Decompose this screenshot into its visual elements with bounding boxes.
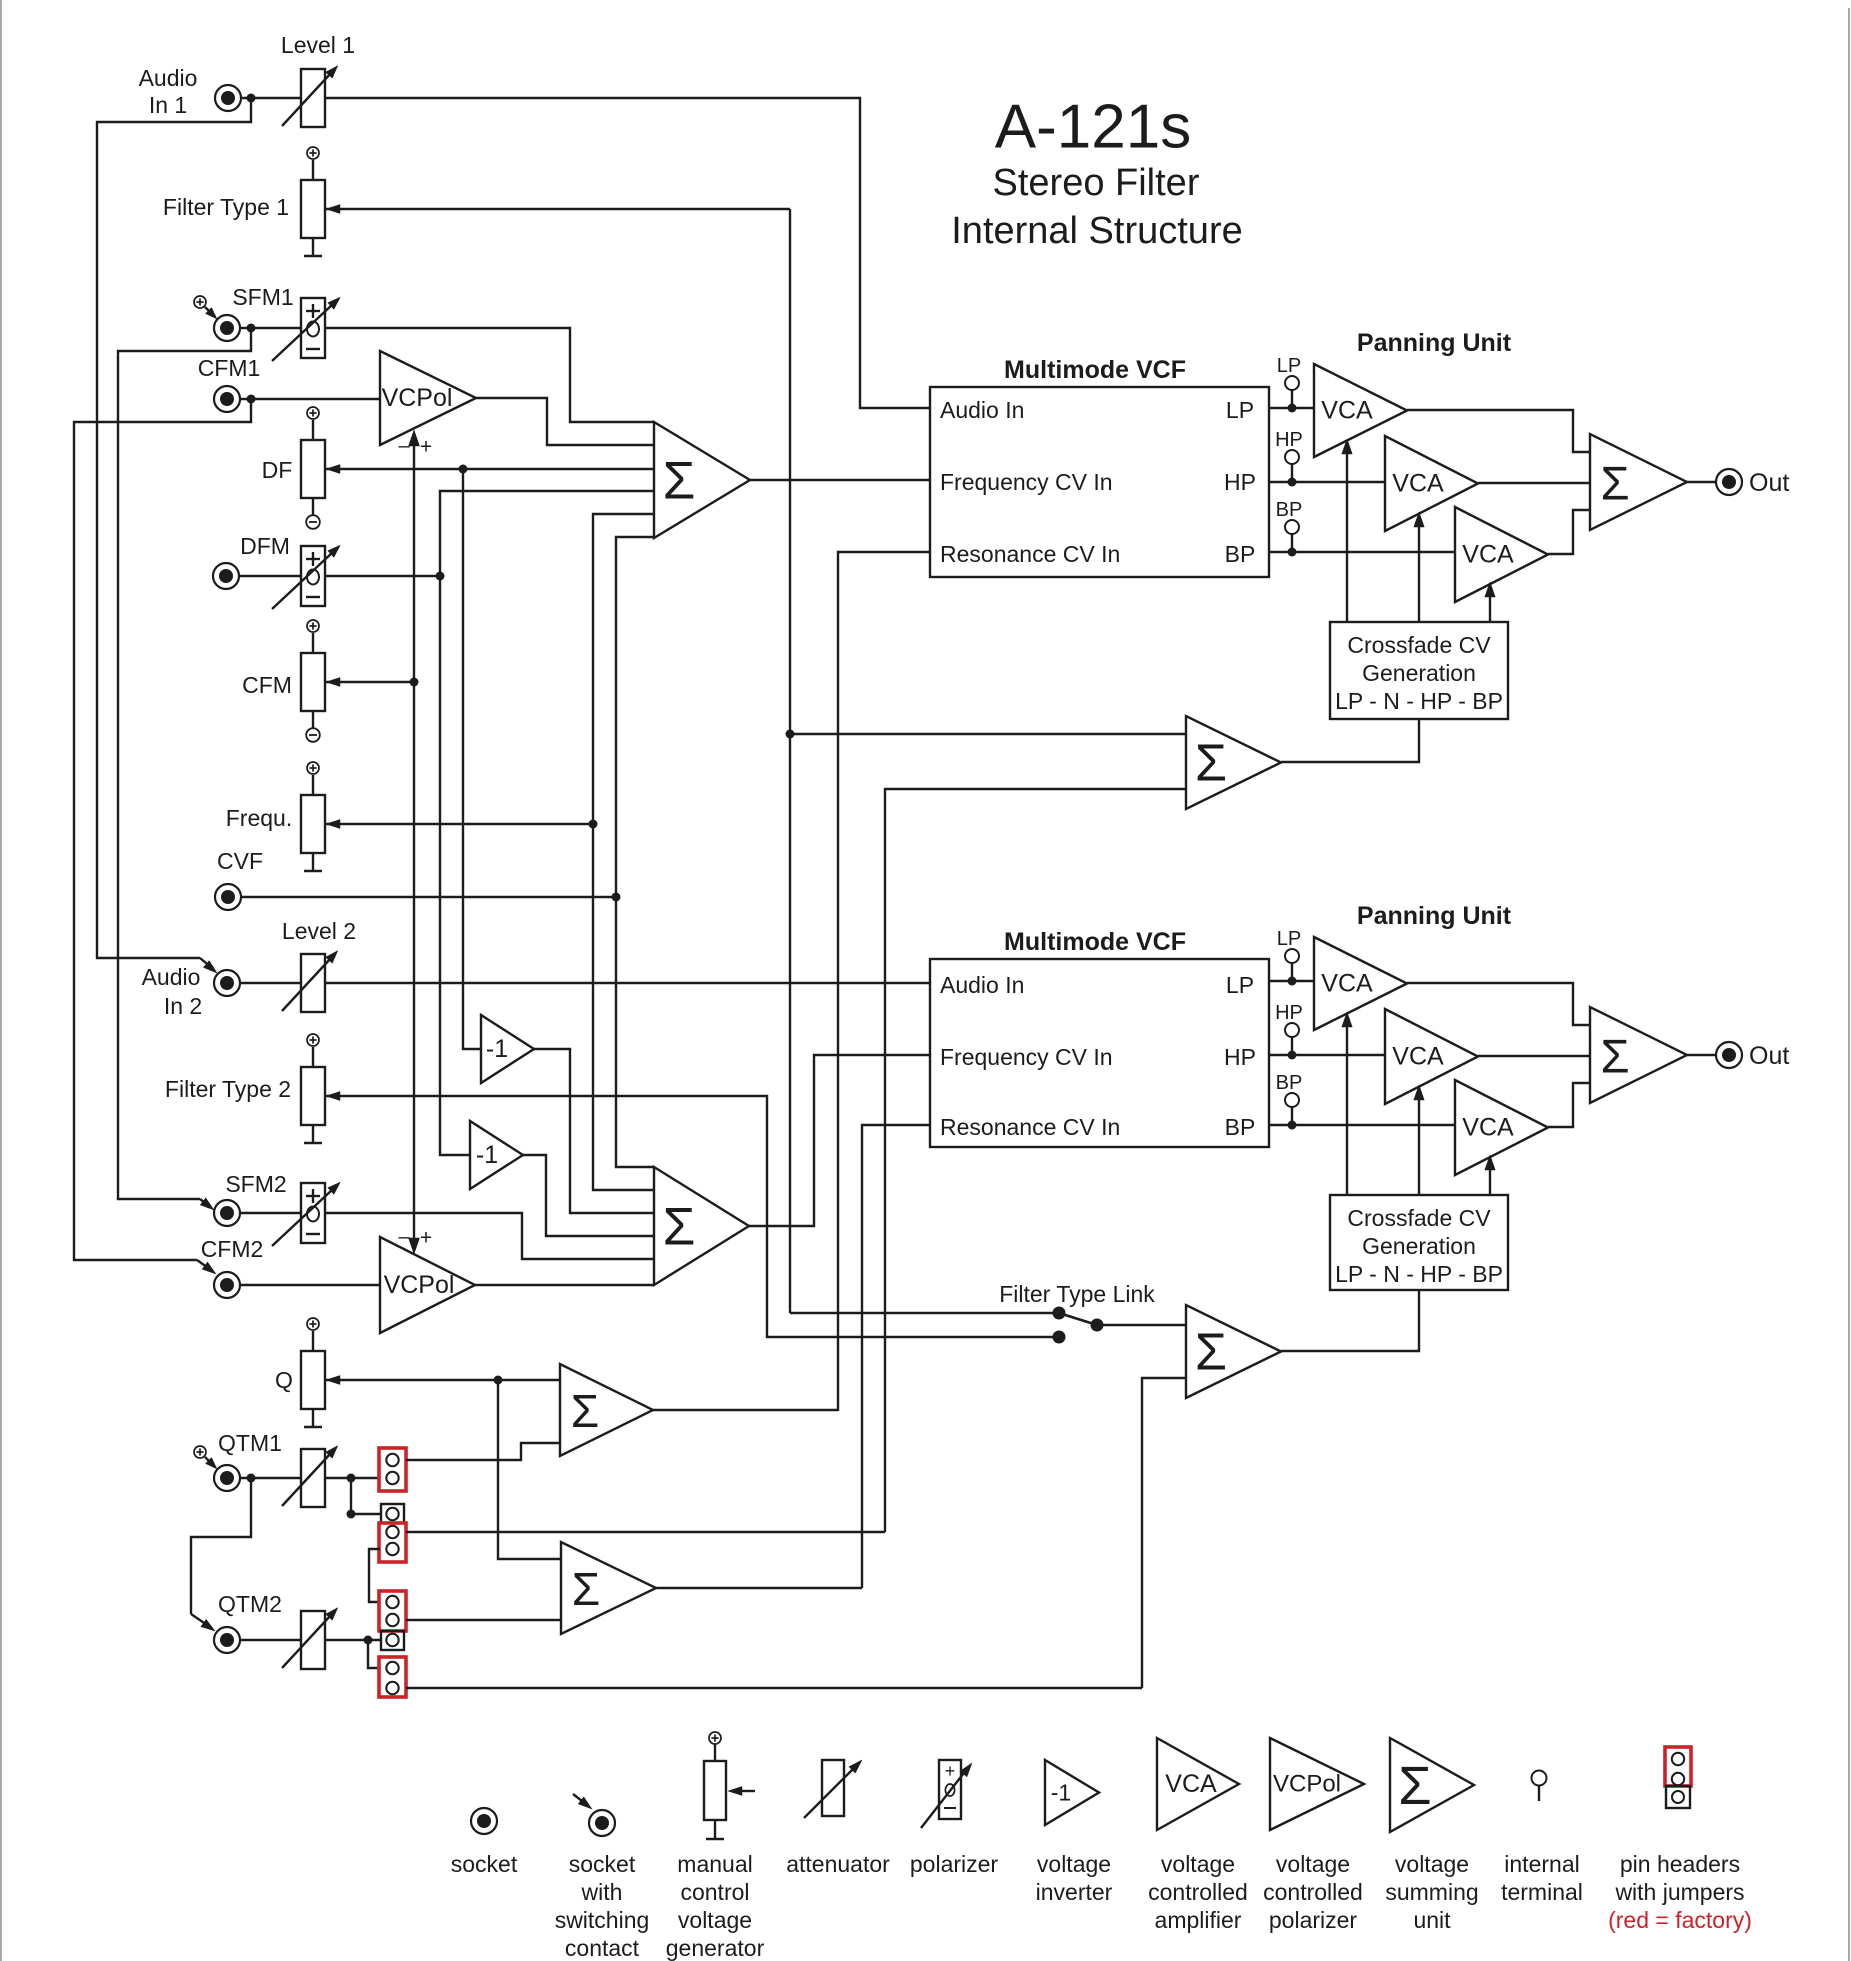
svg-text:Out: Out <box>1749 469 1789 497</box>
socket QTM2 <box>214 1591 282 1653</box>
node QTM1 out junction <box>347 1474 356 1483</box>
svg-text:Audio In: Audio In <box>940 397 1024 423</box>
polarizer SFM1 <box>272 297 340 361</box>
label VCF U2 Audio In <box>940 972 1254 998</box>
socket Out 1 <box>1716 469 1789 497</box>
svg-text:manual: manual <box>677 1851 752 1877</box>
label VCF U2 Frequency CV In <box>940 1044 1256 1070</box>
svg-text:terminal: terminal <box>1501 1879 1583 1905</box>
node Q junction <box>494 1376 503 1385</box>
svg-text:(red = factory): (red = factory) <box>1608 1907 1752 1933</box>
svg-text:HP: HP <box>1224 469 1256 495</box>
svg-text:inverter: inverter <box>1036 1879 1113 1905</box>
summing unit link sum 2 <box>1186 1305 1281 1398</box>
node QTM2 junction <box>364 1636 373 1645</box>
svg-text:pin headers: pin headers <box>1620 1851 1740 1877</box>
wire VCPol U1 control <box>409 430 420 682</box>
svg-text:socket: socket <box>451 1851 518 1877</box>
plus normal QTM1 <box>194 1446 217 1469</box>
node link switch contact B <box>1053 1331 1066 1344</box>
wire VCF1 HP out <box>1269 481 1385 483</box>
wire Filter Type 1 wiper <box>325 205 790 214</box>
svg-text:HP: HP <box>1275 429 1303 451</box>
socket SFM1 <box>214 284 294 341</box>
wire QTM1 attenuator out <box>325 1477 379 1479</box>
svg-text:QTM2: QTM2 <box>218 1591 282 1617</box>
svg-text:Stereo Filter: Stereo Filter <box>993 162 1200 204</box>
svg-text:voltage: voltage <box>1395 1851 1469 1877</box>
page border right <box>1848 8 1850 1961</box>
wire Q to Q sum B <box>498 1380 561 1559</box>
subtitle Internal Structure <box>951 210 1242 252</box>
attenuator QTM2 <box>282 1608 338 1669</box>
svg-text:-1: -1 <box>1051 1780 1071 1806</box>
svg-text:Σ: Σ <box>663 1198 696 1257</box>
wire Frequ wiper <box>325 820 593 829</box>
svg-text:Multimode VCF: Multimode VCF <box>1004 356 1186 384</box>
svg-text:Generation: Generation <box>1362 660 1476 686</box>
wire inverter B out to sum 2 <box>523 1155 654 1236</box>
label Panning Unit 1 <box>1357 329 1512 357</box>
wire output 1 <box>1687 481 1716 483</box>
svg-text:Frequency CV In: Frequency CV In <box>940 1044 1113 1070</box>
svg-text:internal: internal <box>1504 1851 1579 1877</box>
manual control CFM <box>242 620 325 742</box>
svg-text:Frequ.: Frequ. <box>226 805 292 831</box>
label VCF U1 Resonance CV In <box>940 541 1255 567</box>
label VCF U1 Frequency CV In <box>940 469 1256 495</box>
wire H4 pin2 to link sum 2 <box>406 1687 1142 1689</box>
wire VCF2 HP out <box>1269 1054 1385 1056</box>
subtitle Stereo Filter <box>993 162 1200 204</box>
svg-text:-1: -1 <box>476 1141 498 1169</box>
multimode VCF U1 box <box>930 356 1269 577</box>
svg-text:VCA: VCA <box>1165 1770 1217 1798</box>
svg-text:LP: LP <box>1226 972 1254 998</box>
pin header H2 pin1 <box>386 1508 398 1520</box>
svg-text:controlled: controlled <box>1148 1879 1248 1905</box>
summing unit Q sum B <box>561 1542 656 1634</box>
title A-121s <box>995 93 1191 162</box>
node DF junction <box>459 465 468 474</box>
legend internal terminal <box>1501 1771 1583 1906</box>
summing unit sum 2 <box>654 1167 749 1285</box>
wire SFM1 to polarizer <box>240 327 301 329</box>
label Filter Type Link <box>999 1281 1155 1307</box>
wire VCPol U1 out to sum 1 <box>476 398 654 445</box>
svg-text:voltage: voltage <box>1161 1851 1235 1877</box>
node QTM1 junction <box>247 1474 256 1483</box>
node CVF junction <box>612 893 621 902</box>
VCA HP 1 <box>1385 436 1478 531</box>
svg-text:-1: -1 <box>486 1035 508 1063</box>
voltage inverter B <box>470 1121 523 1189</box>
VCA BP 2 <box>1455 1080 1548 1175</box>
crossfade CV generation box 2 <box>1330 1195 1508 1290</box>
wire CFM wiper <box>325 678 414 687</box>
svg-text:VCA: VCA <box>1321 397 1373 425</box>
polarizer SFM2 <box>272 1182 340 1246</box>
svg-text:HP: HP <box>1224 1044 1256 1070</box>
svg-text:Σ: Σ <box>663 452 696 511</box>
legend manual control voltage generator <box>666 1732 765 1961</box>
svg-text:Σ: Σ <box>1195 1324 1227 1382</box>
wire link sum 1 to crossfade 1 <box>1281 719 1419 762</box>
svg-text:Generation: Generation <box>1362 1233 1476 1259</box>
svg-text:Internal Structure: Internal Structure <box>951 210 1242 252</box>
svg-text:DFM: DFM <box>240 533 290 559</box>
wire VCF1 LP out <box>1269 407 1314 409</box>
wire Audio In 1 normal to Audio In 2 <box>97 98 251 973</box>
wire crossfade 1 to VCA HP <box>1414 512 1425 622</box>
wire SFM1 normal to SFM2 <box>118 328 251 1210</box>
node CFM1 junction <box>247 395 256 404</box>
svg-text:generator: generator <box>666 1935 765 1961</box>
wire H2 pin2 to link sum 1 <box>406 1531 885 1533</box>
svg-text:polarizer: polarizer <box>910 1851 999 1877</box>
label VCF U2 Resonance CV In <box>940 1114 1255 1140</box>
svg-text:VCPol: VCPol <box>1273 1771 1341 1798</box>
svg-text:attenuator: attenuator <box>786 1851 890 1877</box>
svg-text:Audio In: Audio In <box>940 972 1024 998</box>
wire SFM1 polarizer to sum 1 <box>325 328 654 422</box>
manual control Q <box>275 1318 325 1427</box>
pin header H1 with jumper <box>379 1448 406 1491</box>
wire crossfade 2 to VCA LP <box>1342 1012 1353 1195</box>
wire link switch to link sum 2 <box>1097 1324 1186 1326</box>
svg-text:Audio: Audio <box>139 65 198 91</box>
node LP terminal 2 <box>1277 928 1301 986</box>
legend voltage inverter <box>1036 1760 1113 1905</box>
svg-text:QTM1: QTM1 <box>218 1430 282 1456</box>
svg-text:LP: LP <box>1277 928 1301 950</box>
wire link switch lever <box>1059 1313 1097 1325</box>
svg-text:Σ: Σ <box>571 1385 599 1437</box>
wire VCA HP 1 to out sum <box>1478 482 1590 484</box>
wire Filter Type 1 down <box>789 209 791 1313</box>
wire DF wiper to sum 1 <box>325 465 654 474</box>
pin header H3 outline <box>381 1631 404 1650</box>
svg-text:unit: unit <box>1413 1907 1451 1933</box>
wire crossfade 1 to VCA LP <box>1342 439 1353 622</box>
manual control Filter Type 1 <box>163 147 325 256</box>
wire VCF1 Resonance CV In <box>838 552 930 1411</box>
pin header H2 with jumper <box>379 1523 406 1562</box>
wire H3 pin2 to Q sum B <box>406 1619 561 1621</box>
wire Audio In 2 to Level 2 <box>240 982 301 984</box>
wire VCF2 Resonance CV In <box>862 1125 930 1588</box>
socket CFM2 <box>201 1236 264 1298</box>
wire output 2 <box>1687 1054 1716 1056</box>
wire VCF2 LP out <box>1269 980 1314 982</box>
wire inverter A out to sum 2 <box>534 1049 654 1213</box>
wire QTM1 normal to QTM2 <box>191 1478 251 1631</box>
pin header H3 pin3 <box>386 1634 398 1646</box>
svg-text:+: + <box>420 1227 432 1250</box>
svg-text:CVF: CVF <box>217 848 263 874</box>
svg-text:BP: BP <box>1225 1114 1256 1140</box>
wire Audio In 1 to Level 1 <box>241 97 301 99</box>
svg-text:BP: BP <box>1225 541 1256 567</box>
svg-text:Resonance CV In: Resonance CV In <box>940 1114 1120 1140</box>
socket SFM2 <box>214 1171 287 1226</box>
wire crossfade 2 to VCA BP <box>1485 1155 1496 1195</box>
svg-text:A-121s: A-121s <box>995 93 1191 162</box>
wire crossfade 2 to VCA HP <box>1414 1085 1425 1195</box>
node Frequ junction <box>589 820 598 829</box>
wire CVF to sum 2 <box>616 897 654 1167</box>
svg-text:controlled: controlled <box>1263 1879 1363 1905</box>
wire Q sum B to VCF2 resonance <box>656 1587 862 1589</box>
legend socket with switching contact <box>555 1794 650 1961</box>
node Audio In 1 junction <box>247 94 256 103</box>
summing unit sum 1 <box>654 422 750 538</box>
socket Audio In 2 <box>142 964 240 1019</box>
wire Audio In 2 to VCF2 Audio In <box>325 982 930 984</box>
svg-text:–: – <box>398 1226 410 1248</box>
svg-text:VCA: VCA <box>1321 970 1373 998</box>
svg-text:switching: switching <box>555 1907 650 1933</box>
svg-text:Filter Type Link: Filter Type Link <box>999 1281 1155 1307</box>
op-amp VCPol U2 <box>380 1237 475 1333</box>
node link switch common <box>1091 1319 1104 1332</box>
attenuator Level 2 <box>282 918 356 1012</box>
svg-text:Σ: Σ <box>1398 1756 1431 1816</box>
svg-text:Σ: Σ <box>1600 457 1629 510</box>
legend summing unit <box>1385 1738 1478 1933</box>
wire CVF <box>241 896 616 898</box>
wire VCPol U2 out to sum 2 <box>475 1284 654 1286</box>
svg-text:Audio: Audio <box>142 964 201 990</box>
VCA LP 1 <box>1314 364 1407 457</box>
wire DFM to polarizer <box>239 575 301 577</box>
legend polarizer <box>910 1760 999 1877</box>
wire SFM2 to polarizer <box>240 1212 301 1214</box>
plus normal SFM1 <box>194 296 217 319</box>
svg-text:LP: LP <box>1277 355 1301 377</box>
wire VCA BP 2 to out sum <box>1548 1083 1590 1127</box>
wire CFM1 normal to CFM2 <box>74 399 251 1274</box>
label VCPol U1 polarity <box>398 435 432 459</box>
svg-text:Out: Out <box>1749 1042 1789 1070</box>
svg-text:Level 2: Level 2 <box>282 918 356 944</box>
wire VCA LP 2 to out sum <box>1407 983 1590 1025</box>
pin header H4 with jumper <box>379 1657 406 1697</box>
node CFM junction <box>410 678 419 687</box>
wire QTM2 attenuator out to H3 pin3 <box>325 1639 380 1641</box>
svg-text:Σ: Σ <box>1600 1030 1629 1083</box>
wire CVF to sum 1 <box>616 537 654 897</box>
wire CFM2 to VCPol U2 <box>240 1284 380 1286</box>
svg-text:In 2: In 2 <box>164 993 202 1019</box>
svg-text:+: + <box>420 436 432 459</box>
node HP terminal 1 <box>1275 429 1303 487</box>
svg-text:DF: DF <box>262 457 293 483</box>
wire VCF1 BP out <box>1269 551 1455 553</box>
wire header H2 to link sum 1 <box>885 789 1186 1532</box>
legend pin header <box>1608 1747 1752 1933</box>
svg-text:Panning Unit: Panning Unit <box>1357 902 1512 930</box>
page border left <box>0 0 2 1961</box>
manual control Filter Type 2 <box>165 1034 325 1143</box>
wire sum 2 to VCF2 Frequency CV In <box>749 1055 930 1226</box>
svg-text:VCPol: VCPol <box>382 384 453 412</box>
wire VCF2 BP out <box>1269 1124 1455 1126</box>
wire QTM2 to attenuator <box>240 1639 301 1641</box>
svg-text:voltage: voltage <box>1276 1851 1350 1877</box>
voltage inverter A <box>481 1015 534 1083</box>
svg-text:CFM2: CFM2 <box>201 1236 264 1262</box>
node LP terminal 1 <box>1277 355 1301 413</box>
wire Q sum A to VCF1 resonance <box>653 1409 838 1411</box>
legend VCA <box>1148 1738 1248 1933</box>
svg-text:voltage: voltage <box>678 1907 752 1933</box>
socket CVF <box>215 848 263 910</box>
svg-text:HP: HP <box>1275 1002 1303 1024</box>
svg-text:+: + <box>945 1761 956 1781</box>
node link switch contact A <box>1053 1307 1066 1320</box>
attenuator QTM1 <box>282 1446 338 1507</box>
wire QTM1 to attenuator <box>240 1477 301 1479</box>
wire VCA LP 1 to out sum <box>1407 410 1590 452</box>
node BP terminal 2 <box>1276 1072 1303 1130</box>
pin header H2 outline <box>381 1504 404 1523</box>
svg-text:BP: BP <box>1276 499 1303 521</box>
node SFM1 junction <box>247 324 256 333</box>
VCA BP 1 <box>1455 507 1548 602</box>
svg-text:with: with <box>581 1879 623 1905</box>
svg-text:Panning Unit: Panning Unit <box>1357 329 1512 357</box>
svg-text:Crossfade CV: Crossfade CV <box>1347 632 1491 658</box>
summing unit output 2 <box>1590 1007 1687 1103</box>
socket CFM1 <box>198 355 261 412</box>
wire Q wiper to Q sum A <box>325 1376 560 1385</box>
svg-text:CFM1: CFM1 <box>198 355 261 381</box>
svg-text:Frequency CV In: Frequency CV In <box>940 469 1113 495</box>
attenuator Level 1 <box>281 32 355 127</box>
legend attenuator <box>786 1760 890 1877</box>
wire Audio In 1 to VCF1 Audio In <box>325 98 930 408</box>
summing unit link sum 1 <box>1186 716 1281 809</box>
socket DFM <box>213 533 290 589</box>
svg-text:VCA: VCA <box>1462 1114 1514 1142</box>
svg-text:control: control <box>680 1879 749 1905</box>
wire VCA HP 2 to out sum <box>1478 1055 1590 1057</box>
svg-text:SFM2: SFM2 <box>225 1171 286 1197</box>
wire VCA BP 1 to out sum <box>1548 510 1590 554</box>
svg-text:CFM: CFM <box>242 672 292 698</box>
svg-text:Σ: Σ <box>1195 735 1227 793</box>
legend VCPol <box>1263 1738 1364 1933</box>
svg-text:VCA: VCA <box>1392 470 1444 498</box>
wire DFM to sum 1 <box>440 491 654 576</box>
wire Filter Type 2 wiper to link switch <box>325 1092 1053 1338</box>
manual control DF <box>262 407 325 529</box>
wire QTM2 to header H4 <box>368 1640 380 1668</box>
svg-text:Filter Type 2: Filter Type 2 <box>165 1076 291 1102</box>
node BP terminal 1 <box>1276 499 1303 557</box>
svg-text:VCA: VCA <box>1462 541 1514 569</box>
wire link switch top contact <box>790 1312 1053 1314</box>
wire Filter Type 1 to link sum 1 <box>790 733 1186 735</box>
svg-text:socket: socket <box>569 1851 636 1877</box>
svg-text:LP - N - HP - BP: LP - N - HP - BP <box>1335 688 1503 714</box>
svg-text:voltage: voltage <box>1037 1851 1111 1877</box>
svg-text:summing: summing <box>1385 1879 1478 1905</box>
wire DFM polarizer out <box>325 575 440 577</box>
polarizer DFM <box>272 545 340 609</box>
wire H2 pin3 to H3 pin1 <box>369 1549 380 1602</box>
svg-text:LP - N - HP - BP: LP - N - HP - BP <box>1335 1261 1503 1287</box>
crossfade CV generation box 1 <box>1330 622 1508 719</box>
manual control Frequ <box>226 762 325 871</box>
svg-text:VCPol: VCPol <box>384 1271 455 1299</box>
svg-text:Filter Type 1: Filter Type 1 <box>163 194 289 220</box>
label VCF U1 Audio In <box>940 397 1254 423</box>
svg-text:BP: BP <box>1276 1072 1303 1094</box>
label VCPol U2 polarity <box>398 1226 432 1250</box>
op-amp VCPol U1 <box>380 351 476 445</box>
wire Frequ to sum 2 <box>593 824 654 1190</box>
wire crossfade 1 to VCA BP <box>1485 582 1496 622</box>
node H2 junction <box>347 1510 356 1519</box>
svg-text:VCA: VCA <box>1392 1043 1444 1071</box>
pin header H3 with jumper <box>379 1591 406 1631</box>
wire sum 1 to VCF1 Frequency CV In <box>750 479 930 481</box>
node HP terminal 2 <box>1275 1002 1303 1060</box>
multimode VCF U2 box <box>930 928 1269 1147</box>
wire CFM1 to VCPol U1 <box>240 398 380 400</box>
svg-text:amplifier: amplifier <box>1155 1907 1242 1933</box>
VCA HP 2 <box>1385 1009 1478 1104</box>
svg-text:Level 1: Level 1 <box>281 32 355 58</box>
svg-text:Multimode VCF: Multimode VCF <box>1004 928 1186 956</box>
svg-text:polarizer: polarizer <box>1269 1907 1358 1933</box>
socket Audio In 1 <box>139 65 241 118</box>
node Filter Type 1 branch junction <box>786 730 795 739</box>
summing unit Q sum A <box>560 1364 653 1456</box>
svg-text:In 1: In 1 <box>149 92 187 118</box>
wire header H4 to link sum 2 <box>1142 1378 1186 1688</box>
node DFM junction <box>436 572 445 581</box>
legend socket <box>451 1808 518 1877</box>
svg-text:Resonance CV In: Resonance CV In <box>940 541 1120 567</box>
label Panning Unit 2 <box>1357 902 1512 930</box>
svg-text:Crossfade CV: Crossfade CV <box>1347 1205 1491 1231</box>
wire DF to inverter A <box>463 469 481 1049</box>
wire H1 pin1 to Q sum A <box>406 1443 560 1460</box>
svg-text:SFM1: SFM1 <box>232 284 293 310</box>
wire VCPol U2 control <box>409 682 420 1254</box>
wire Frequ to sum 1 <box>593 514 654 824</box>
svg-text:Q: Q <box>275 1367 293 1393</box>
socket Out 2 <box>1716 1042 1789 1070</box>
VCA LP 2 <box>1314 937 1407 1030</box>
wire SFM2 polarizer to sum 2 <box>325 1213 654 1259</box>
wire link sum 2 to crossfade 2 <box>1281 1290 1419 1351</box>
wire DFM to inverter B <box>440 576 470 1155</box>
svg-text:contact: contact <box>565 1935 640 1961</box>
socket QTM1 <box>214 1430 282 1491</box>
svg-text:LP: LP <box>1226 397 1254 423</box>
summing unit output 1 <box>1590 434 1687 530</box>
svg-text:with jumpers: with jumpers <box>1614 1879 1744 1905</box>
svg-text:Σ: Σ <box>572 1563 600 1615</box>
wire QTM1 to header H2 <box>351 1478 380 1514</box>
